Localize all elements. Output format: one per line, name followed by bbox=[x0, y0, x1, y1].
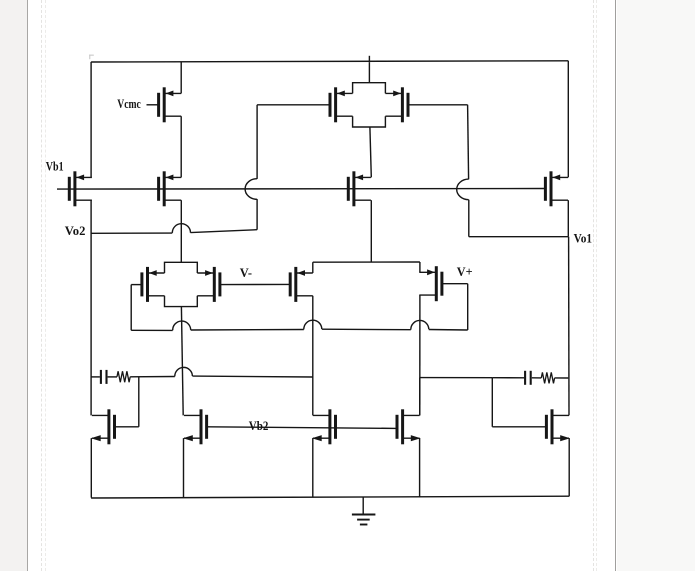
svg-text:V+: V+ bbox=[457, 265, 473, 279]
svg-text:V-: V- bbox=[240, 266, 252, 280]
wire Vo2 vertical to M6 gate bbox=[256, 105, 258, 179]
wire node to C2 bbox=[492, 377, 524, 379]
wire Vo2 vertical rise bbox=[256, 199, 258, 230]
wire M9 gate to V- bbox=[220, 283, 291, 285]
wire pair M6/M7 bottom to M4 source bbox=[370, 127, 371, 177]
resistor R1 bbox=[117, 371, 130, 382]
label Vo1 bbox=[574, 232, 592, 246]
wire M6 gate lead bbox=[257, 104, 330, 106]
wire M12 source rise bbox=[419, 262, 421, 272]
wire M8 gate lead bbox=[131, 284, 142, 286]
transistor M4 (middle cascode) bbox=[348, 171, 371, 206]
wire C2 to R2 bbox=[532, 377, 542, 379]
label V- bbox=[240, 266, 252, 280]
label Vb2 bbox=[249, 419, 269, 433]
node drawing anchor mark bbox=[89, 55, 94, 60]
wire right edge Vo1 to M15 drain bbox=[568, 237, 570, 416]
wire pair M6/M7 top connector to VDD bbox=[368, 62, 370, 82]
transistor M14 (bottom NMOS, V- leg) bbox=[312, 409, 336, 444]
resistor R2 bbox=[541, 372, 554, 383]
wire RC node drop to M11 gate bbox=[138, 377, 140, 427]
wire R1 to node bbox=[130, 376, 175, 378]
wire Vb1 rail bbox=[57, 188, 545, 191]
wire M14 source down bbox=[312, 438, 314, 497]
junction hop V+ line over M10 drain bbox=[304, 320, 322, 329]
svg-text:Vb1: Vb1 bbox=[46, 159, 64, 173]
junction hop V+ line over M12 drain bbox=[411, 320, 429, 329]
wire M3 drain to M2 source bbox=[180, 116, 182, 177]
left grey margin strip bbox=[0, 0, 27, 571]
wire M12 drain node to right RC bbox=[420, 377, 493, 379]
label V+ bbox=[457, 265, 473, 279]
left page dashed margin guides bbox=[41, 0, 42, 571]
wire C1 to R1 bbox=[108, 376, 117, 378]
wire Vo1 row to right edge bbox=[469, 236, 569, 238]
transistor M5 (right cascode) bbox=[545, 171, 568, 206]
transistor M16 (bottom NMOS, V+ leg) bbox=[397, 409, 421, 444]
wire M2 drain down to pair M8/M9 top bbox=[180, 200, 182, 262]
wire V+ line centre-left segment bbox=[191, 329, 304, 332]
right gutter line bbox=[615, 0, 617, 571]
wire Vo2 slant up bbox=[191, 230, 258, 233]
wire right edge upper (VDD to M5 source) bbox=[567, 61, 569, 178]
svg-text:Vo2: Vo2 bbox=[65, 224, 86, 238]
wire pair M8/M9 bottom tail down bbox=[181, 307, 183, 416]
wire M12 gate lead bbox=[442, 283, 468, 285]
junction hop Vo2 over chain bbox=[172, 224, 190, 233]
wire M10 drain down bbox=[312, 296, 314, 416]
wire M4 drain to input pair tail bbox=[370, 200, 372, 262]
wire Vo2 to C1 bbox=[91, 376, 100, 378]
junction hop RC line over chain bbox=[175, 367, 193, 376]
ground symbol bbox=[352, 515, 376, 525]
svg-text:Vcmc: Vcmc bbox=[117, 97, 141, 111]
wire M16 drain up (joins RC node) bbox=[419, 378, 421, 416]
wire Vcmc gate lead bbox=[147, 104, 159, 106]
wire M10 source rise bbox=[312, 262, 314, 273]
wire M7 gate lead bbox=[408, 104, 468, 106]
wire Vb2 rail bbox=[207, 427, 397, 429]
wire VSS bottom rail bbox=[91, 496, 569, 498]
wire M13 source down bbox=[183, 438, 185, 498]
capacitor C1 bbox=[101, 370, 107, 384]
wire RC node drop to M15 gate bbox=[491, 378, 493, 427]
wire input pair tail connector bbox=[313, 261, 420, 263]
junction hop Vo2 wire over Vb1 rail bbox=[245, 179, 257, 200]
wire Vo1 vertical drop bbox=[468, 105, 469, 179]
wire VDD top rail bbox=[91, 61, 568, 62]
svg-text:Vb2: Vb2 bbox=[249, 419, 269, 433]
right page dashed margin guides bbox=[593, 0, 594, 571]
wire M15 gate lead bbox=[492, 426, 546, 428]
wire R2 to Vo1 edge bbox=[555, 377, 569, 379]
wire M12 drain down bbox=[419, 295, 421, 415]
left gutter line bbox=[27, 0, 29, 571]
transistor pair M8/M9 (left sense pair) bbox=[142, 262, 220, 306]
svg-text:Vo1: Vo1 bbox=[574, 232, 592, 246]
wire left edge mid (M1 drain / Vo2 / down to M11 drain) bbox=[90, 200, 92, 415]
wire left edge lower (M11 source to VSS) bbox=[90, 438, 92, 497]
junction hop V+ line over pair tail bbox=[173, 321, 191, 330]
wire M11 gate lead bbox=[115, 426, 139, 428]
wire right edge mid (M5 drain to Vo1) bbox=[567, 200, 569, 237]
label Vb1 bbox=[46, 159, 64, 173]
transistor M11 (bottom left NMOS) bbox=[91, 409, 115, 444]
transistor pair M6/M7 (top centre pair) bbox=[330, 83, 408, 127]
label Vo2 bbox=[65, 224, 86, 238]
wire M3 source to VDD bbox=[180, 62, 182, 93]
junction hop Vo1 wire over Vb1 rail bbox=[457, 179, 469, 200]
transistor M15 (bottom right NMOS) bbox=[546, 409, 570, 444]
transistor M13 (bottom NMOS, Vb2) bbox=[183, 409, 207, 444]
transistor M12 (V+ input) bbox=[419, 266, 442, 301]
wire V+ line right segment bbox=[429, 329, 468, 332]
wire M16 source down bbox=[419, 438, 421, 497]
transistor M2 (left cascode) bbox=[159, 171, 182, 206]
wire Vo2 from left edge bbox=[91, 232, 172, 234]
wire left edge upper (VDD to M1 source) bbox=[90, 62, 92, 177]
transistor M1 (Vb1 cascode, left) bbox=[69, 171, 92, 206]
wire V+ line left segment bbox=[131, 329, 173, 331]
capacitor C2 bbox=[525, 371, 531, 385]
label Vcmc bbox=[117, 97, 141, 111]
wire RC line to M10 drain bbox=[192, 375, 312, 378]
node VDD stub bbox=[368, 56, 370, 62]
transistor M10 (V- input) bbox=[290, 267, 313, 302]
right grey margin strip bbox=[617, 0, 695, 571]
transistor M3 (Vcmc current source) bbox=[159, 87, 182, 122]
wire M8 gate drop to V+ line bbox=[130, 285, 132, 331]
wire M12 gate drop bbox=[467, 284, 469, 330]
wire Vo1 vertical lower bbox=[468, 200, 470, 237]
wire ground stub bbox=[362, 497, 364, 515]
wire V+ line centre-right segment bbox=[322, 328, 411, 331]
wire right edge lower (M15 source to VSS) bbox=[568, 438, 570, 496]
